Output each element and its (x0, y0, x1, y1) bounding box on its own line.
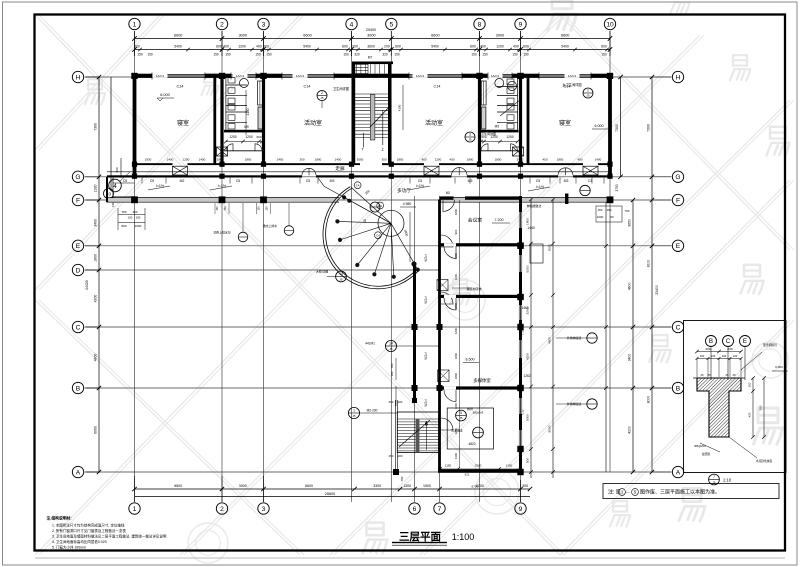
svg-text:3000: 3000 (496, 34, 504, 38)
svg-text:H: H (76, 74, 81, 81)
svg-text:1800: 1800 (467, 157, 474, 161)
svg-text:J5: J5 (459, 416, 463, 420)
svg-text:上: 上 (381, 147, 385, 152)
svg-text:100: 100 (398, 454, 403, 458)
svg-text:250: 250 (389, 454, 394, 458)
svg-text:4600: 4600 (628, 283, 632, 291)
svg-text:活动室: 活动室 (304, 119, 322, 127)
svg-text:300: 300 (522, 484, 528, 488)
svg-text:600: 600 (216, 45, 222, 49)
svg-text:J5: J5 (320, 96, 324, 100)
svg-text:6600: 6600 (303, 34, 311, 38)
svg-text:3300: 3300 (373, 484, 381, 488)
svg-text:6.000: 6.000 (595, 124, 604, 128)
svg-text:1920: 1920 (94, 184, 98, 192)
svg-text:J5: J5 (586, 93, 590, 97)
svg-text:1250: 1250 (229, 135, 237, 139)
svg-text:M9: M9 (495, 125, 500, 129)
svg-text:28600: 28600 (325, 492, 336, 496)
svg-text:5400: 5400 (303, 45, 311, 49)
svg-text:D: D (76, 267, 81, 274)
svg-text:200: 200 (352, 45, 358, 49)
svg-text:3400: 3400 (94, 219, 98, 227)
svg-text:1400: 1400 (199, 157, 206, 161)
svg-text:4200: 4200 (628, 426, 632, 434)
svg-text:Φ8@200: Φ8@200 (694, 444, 706, 448)
svg-text:1200: 1200 (454, 273, 458, 280)
svg-text:G: G (675, 174, 680, 181)
svg-text:6600: 6600 (305, 484, 313, 488)
svg-text:4. 卫生间地面标高均比同层低0.020: 4. 卫生间地面标高均比同层低0.020 (52, 539, 107, 544)
svg-text:2: 2 (321, 91, 323, 95)
svg-text:2: 2 (220, 21, 224, 28)
svg-text:1800: 1800 (454, 302, 458, 309)
svg-text:E: E (76, 243, 81, 250)
svg-text:1468: 1468 (521, 306, 528, 310)
svg-text:F: F (76, 197, 80, 204)
svg-text:寝室: 寝室 (177, 119, 189, 127)
svg-text:7: 7 (438, 506, 442, 513)
svg-text:1A/C1: 1A/C1 (156, 74, 165, 78)
svg-text:2. 所有门窗洞口尺寸见门窗表及工程做法一览表: 2. 所有门窗洞口尺寸见门窗表及工程做法一览表 (52, 528, 126, 533)
svg-text:250: 250 (389, 400, 394, 404)
svg-text:600: 600 (523, 45, 529, 49)
svg-text:1800: 1800 (94, 254, 98, 262)
svg-text:200: 200 (727, 347, 732, 351)
svg-text:8000: 8000 (548, 425, 552, 432)
svg-text:150: 150 (523, 53, 529, 57)
svg-text:150: 150 (128, 216, 133, 220)
svg-text:C: C (726, 338, 731, 345)
svg-text:E: E (676, 243, 681, 250)
svg-text:3000: 3000 (239, 34, 247, 38)
svg-text:1300: 1300 (403, 484, 411, 488)
svg-text:1800: 1800 (454, 352, 458, 359)
svg-text:320: 320 (382, 53, 388, 57)
svg-text:M7: M7 (368, 56, 373, 60)
svg-text:图作废、三层平面施工以本图为准。: 图作废、三层平面施工以本图为准。 (640, 489, 720, 496)
svg-text:1200: 1200 (183, 157, 190, 161)
svg-text:G: G (75, 174, 80, 181)
svg-text:C3: C3 (588, 179, 592, 183)
svg-text:5400: 5400 (561, 45, 569, 49)
svg-text:C5: C5 (306, 179, 310, 183)
svg-text:2400: 2400 (335, 157, 342, 161)
svg-text:25: 25 (726, 373, 729, 377)
svg-text:C14: C14 (304, 85, 311, 89)
svg-text:800: 800 (121, 224, 126, 228)
svg-text:7300: 7300 (615, 124, 619, 132)
svg-text:400: 400 (577, 157, 582, 161)
svg-text:男卫生间详图: 男卫生间详图 (478, 131, 496, 136)
svg-text:1: 1 (133, 506, 137, 513)
svg-text:450: 450 (542, 157, 547, 161)
svg-text:J5: J5 (352, 414, 356, 418)
svg-text:3. 卫生间地面及墙面材料做法见二层平面工程做法, 建筑统一: 3. 卫生间地面及墙面材料做法见二层平面工程做法, 建筑统一做法详见说明 (52, 534, 167, 539)
svg-text:5400: 5400 (174, 45, 182, 49)
svg-text:活动室: 活动室 (425, 119, 443, 127)
svg-text:4820: 4820 (468, 442, 475, 446)
svg-text:3000: 3000 (357, 157, 364, 161)
svg-text:3600: 3600 (367, 45, 375, 49)
svg-text:拉结筋: 拉结筋 (702, 452, 711, 456)
svg-text:3: 3 (469, 132, 471, 136)
svg-text:1400: 1400 (595, 157, 602, 161)
svg-text:5020: 5020 (548, 244, 552, 251)
svg-text:5: 5 (389, 21, 393, 28)
svg-text:300: 300 (132, 210, 137, 214)
svg-text:1750: 1750 (615, 184, 619, 191)
svg-text:5200: 5200 (526, 265, 530, 272)
svg-text:600: 600 (256, 135, 261, 139)
svg-text:3: 3 (262, 506, 266, 513)
svg-text:1200: 1200 (454, 327, 458, 334)
svg-text:1150: 1150 (445, 463, 452, 467)
svg-text:7300: 7300 (94, 123, 98, 131)
svg-text:450: 450 (421, 157, 426, 161)
svg-text:1250: 1250 (506, 135, 514, 139)
svg-text:1: 1 (587, 88, 589, 92)
svg-text:700: 700 (625, 209, 630, 213)
svg-text:100: 100 (748, 382, 752, 387)
svg-text:走廊: 走廊 (335, 165, 345, 172)
svg-text:伸缩缝做法: 伸缩缝做法 (527, 203, 542, 208)
svg-text:6700: 6700 (472, 485, 479, 489)
svg-text:4800: 4800 (94, 354, 98, 362)
svg-text:6.000: 6.000 (775, 365, 783, 369)
svg-text:150: 150 (213, 53, 219, 57)
svg-text:8: 8 (478, 21, 482, 28)
svg-text:8000: 8000 (647, 396, 651, 404)
svg-text:1A/C1: 1A/C1 (236, 74, 245, 78)
svg-text:J5: J5 (389, 347, 393, 351)
svg-text:6600: 6600 (174, 34, 182, 38)
svg-text:900: 900 (454, 229, 458, 234)
svg-text:140: 140 (111, 202, 115, 207)
svg-text:1300: 1300 (454, 452, 458, 459)
svg-text:150: 150 (257, 206, 261, 211)
svg-text:i=1%: i=1% (424, 254, 428, 261)
svg-text:7300: 7300 (647, 124, 651, 132)
svg-text:8100: 8100 (647, 260, 651, 268)
svg-text:1200: 1200 (435, 157, 442, 161)
svg-text:150: 150 (394, 53, 400, 57)
svg-text:6: 6 (413, 506, 417, 513)
svg-text:150: 150 (137, 53, 143, 57)
svg-text:i=1%: i=1% (424, 296, 428, 303)
svg-text:1: 1 (353, 408, 355, 412)
svg-text:200: 200 (384, 45, 390, 49)
svg-text:M2: M2 (446, 191, 451, 195)
svg-text:1: 1 (133, 21, 137, 28)
svg-text:1000: 1000 (135, 224, 142, 228)
svg-text:1150: 1150 (506, 463, 513, 467)
svg-text:C5: C5 (123, 179, 127, 183)
svg-text:150: 150 (266, 53, 272, 57)
svg-text:C10: C10 (520, 329, 524, 335)
svg-text:1000: 1000 (597, 215, 604, 219)
svg-text:400: 400 (480, 45, 486, 49)
svg-text:1830: 1830 (145, 157, 152, 161)
svg-text:1A/C1: 1A/C1 (296, 74, 305, 78)
svg-text:M2: M2 (180, 179, 185, 183)
svg-text:1800: 1800 (454, 252, 458, 259)
svg-text:400: 400 (223, 45, 229, 49)
svg-text:100: 100 (722, 354, 727, 358)
svg-text:4100: 4100 (398, 104, 402, 111)
svg-text:150: 150 (512, 53, 518, 57)
svg-text:A: A (76, 469, 81, 476)
svg-text:150: 150 (343, 53, 349, 57)
svg-text:外墙伸缩缝: 外墙伸缩缝 (567, 335, 582, 340)
svg-text:24420: 24420 (85, 280, 89, 290)
svg-text:—: — (626, 490, 630, 495)
svg-text:150: 150 (225, 53, 231, 57)
svg-text:教师: 教师 (467, 406, 473, 411)
svg-text:1:10: 1:10 (723, 478, 732, 483)
svg-text:散水上排水: 散水上排水 (263, 224, 277, 228)
svg-text:1200: 1200 (238, 45, 246, 49)
svg-text:400: 400 (449, 157, 454, 161)
svg-text:J5: J5 (468, 137, 472, 141)
svg-text:300: 300 (299, 157, 304, 161)
svg-text:C5: C5 (236, 179, 240, 183)
svg-text:150: 150 (601, 53, 607, 57)
svg-text:F: F (676, 197, 680, 204)
svg-text:1800: 1800 (454, 372, 458, 379)
svg-text:1800: 1800 (217, 157, 224, 161)
svg-text:40: 40 (363, 219, 367, 223)
svg-text:C5: C5 (418, 179, 422, 183)
svg-text:C4: C4 (376, 234, 380, 238)
svg-text:500: 500 (526, 458, 530, 463)
svg-text:注.结构说明材:: 注.结构说明材: (47, 516, 72, 521)
svg-text:150: 150 (482, 53, 488, 57)
svg-text:1200: 1200 (496, 45, 504, 49)
svg-text:1A/C1: 1A/C1 (416, 74, 425, 78)
svg-text:7: 7 (713, 475, 715, 479)
svg-text:500: 500 (759, 405, 763, 410)
svg-text:会议室: 会议室 (468, 217, 483, 224)
svg-text:621: 621 (465, 473, 470, 477)
svg-text:5000: 5000 (526, 414, 530, 421)
svg-text:600: 600 (342, 45, 348, 49)
svg-text:女卫生间详图: 女卫生间详图 (562, 82, 581, 87)
svg-text:卫生间详图: 卫生间详图 (333, 86, 349, 91)
svg-text:600: 600 (601, 45, 607, 49)
svg-text:1800: 1800 (495, 157, 502, 161)
svg-text:M3: M3 (564, 179, 569, 183)
svg-text:13: 13 (339, 272, 343, 276)
svg-text:150: 150 (255, 53, 261, 57)
svg-text:四色上排水沟: 四色上排水沟 (214, 231, 231, 235)
svg-text:100: 100 (733, 354, 738, 358)
svg-text:C5: C5 (536, 179, 540, 183)
svg-text:1A/C1: 1A/C1 (491, 74, 500, 78)
svg-text:防水做法: 防水做法 (451, 429, 462, 433)
svg-text:1900: 1900 (423, 484, 431, 488)
svg-text:铺装地砖坡: 铺装地砖坡 (466, 286, 481, 291)
svg-text:1262: 1262 (523, 374, 530, 378)
svg-text:3400: 3400 (628, 354, 632, 362)
svg-text:150: 150 (598, 208, 603, 212)
svg-text:1A/C1: 1A/C1 (568, 74, 577, 78)
svg-text:200: 200 (705, 347, 710, 351)
svg-text:C: C (76, 324, 81, 331)
svg-text:B: B (76, 385, 81, 392)
svg-text:4200: 4200 (526, 353, 530, 360)
svg-text:150: 150 (471, 53, 477, 57)
svg-text:i=1%: i=1% (424, 399, 428, 406)
svg-text:1400: 1400 (167, 157, 174, 161)
svg-text:420: 420 (748, 412, 752, 417)
svg-text:B: B (709, 338, 713, 345)
svg-text:9: 9 (519, 21, 523, 28)
svg-text:100: 100 (398, 400, 403, 404)
svg-text:C: C (676, 324, 681, 331)
svg-text:C4: C4 (356, 184, 360, 188)
svg-text:3650: 3650 (628, 219, 632, 227)
svg-text:5. 门窗大小详 100mm: 5. 门窗大小详 100mm (52, 545, 86, 550)
svg-text:2400: 2400 (277, 157, 284, 161)
svg-text:外墙伸缩缝: 外墙伸缩缝 (567, 401, 582, 406)
svg-text:600: 600 (263, 45, 269, 49)
svg-text:9: 9 (519, 506, 523, 513)
svg-text:M2-200: M2-200 (367, 409, 378, 413)
svg-text:C12: C12 (520, 409, 524, 415)
svg-text:1200: 1200 (245, 135, 253, 139)
svg-text:150: 150 (607, 208, 612, 212)
svg-text:三层平面: 三层平面 (399, 531, 441, 543)
svg-text:14: 14 (389, 341, 393, 345)
svg-text:10: 10 (606, 21, 614, 28)
svg-text:400: 400 (256, 45, 262, 49)
svg-text:多媒体室: 多媒体室 (473, 377, 491, 384)
svg-text:5400: 5400 (431, 45, 439, 49)
svg-text:6000: 6000 (94, 426, 98, 434)
svg-text:400: 400 (513, 45, 519, 49)
svg-text:寝室: 寝室 (559, 119, 571, 127)
svg-text:150: 150 (215, 206, 219, 211)
svg-text:25: 25 (733, 373, 736, 377)
svg-text:H: H (676, 74, 681, 81)
svg-text:700: 700 (400, 476, 404, 481)
svg-text:1:100: 1:100 (452, 532, 475, 542)
svg-text:B: B (676, 385, 681, 392)
svg-text:1800: 1800 (397, 157, 404, 161)
svg-text:水泥砂浆抹面: 水泥砂浆抹面 (756, 459, 772, 463)
svg-text:大样详图: 大样详图 (316, 269, 328, 274)
svg-text:29400: 29400 (366, 28, 376, 32)
svg-text:2500: 2500 (475, 463, 482, 467)
svg-text:8.500: 8.500 (466, 358, 475, 362)
svg-text:i=1%: i=1% (424, 352, 428, 359)
svg-text:3000: 3000 (239, 484, 247, 488)
svg-text:E: E (743, 338, 747, 345)
svg-text:2: 2 (220, 506, 224, 513)
svg-text:1800: 1800 (454, 208, 458, 215)
svg-text:7.200: 7.200 (495, 218, 504, 222)
svg-text:1800: 1800 (315, 157, 322, 161)
svg-text:4500: 4500 (548, 337, 552, 344)
svg-text:150: 150 (223, 206, 227, 211)
svg-text:150: 150 (147, 53, 153, 57)
svg-text:4180: 4180 (246, 108, 250, 115)
svg-text:M9: M9 (244, 125, 249, 129)
svg-text:23400: 23400 (655, 285, 659, 295)
svg-text:C14: C14 (434, 85, 441, 89)
svg-text:4: 4 (350, 21, 354, 28)
svg-text:J5: J5 (339, 277, 343, 281)
svg-text:4.980: 4.980 (403, 202, 412, 206)
svg-text:700: 700 (390, 363, 394, 368)
svg-text:6600: 6600 (561, 34, 569, 38)
svg-text:600: 600 (395, 45, 401, 49)
svg-text:A: A (676, 469, 681, 476)
svg-text:1800: 1800 (526, 218, 530, 225)
svg-text:150: 150 (265, 206, 269, 211)
svg-text:6.000: 6.000 (160, 93, 170, 97)
svg-text:3000: 3000 (367, 34, 375, 38)
svg-text:300: 300 (381, 157, 386, 161)
svg-text:1. 本图所注尺寸均为结构完成面尺寸, 定位轴线: 1. 本图所注尺寸均为结构完成面尺寸, 定位轴线 (52, 523, 125, 528)
svg-text:C14: C14 (177, 85, 184, 89)
svg-text:M3: M3 (330, 179, 335, 183)
svg-text:150: 150 (136, 216, 141, 220)
svg-text:C5: C5 (150, 179, 154, 183)
svg-text:320: 320 (354, 53, 360, 57)
svg-text:441M1: 441M1 (365, 342, 375, 346)
svg-text:2400: 2400 (517, 157, 524, 161)
svg-text:780: 780 (121, 210, 126, 214)
svg-text:1800: 1800 (245, 157, 252, 161)
svg-text:600: 600 (134, 45, 140, 49)
svg-text:25: 25 (701, 373, 704, 377)
svg-text:1800: 1800 (557, 157, 564, 161)
svg-text:多功厅: 多功厅 (397, 187, 411, 194)
svg-text:600: 600 (470, 45, 476, 49)
svg-text:5: 5 (460, 411, 462, 415)
svg-text:582cM3: 582cM3 (473, 411, 484, 415)
svg-text:60: 60 (610, 215, 614, 219)
svg-text:3: 3 (262, 21, 266, 28)
svg-text:6500: 6500 (174, 484, 182, 488)
svg-text:100: 100 (390, 371, 394, 376)
svg-text:6600: 6600 (431, 34, 439, 38)
svg-text:4200: 4200 (94, 295, 98, 303)
svg-text:现浇钢筋砼: 现浇钢筋砼 (763, 343, 777, 347)
svg-text:100: 100 (700, 354, 705, 358)
svg-text:C4: C4 (378, 204, 382, 208)
svg-text:100: 100 (711, 354, 716, 358)
